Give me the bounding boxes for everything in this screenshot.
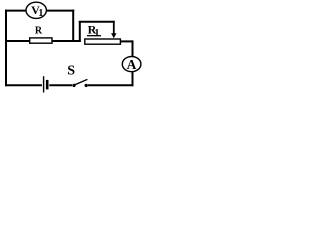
wire top-left horizontal (node to voltmeter) bbox=[5, 10, 26, 12]
rheostat R1 body bbox=[85, 39, 121, 44]
switch S left contact bbox=[72, 84, 75, 87]
voltmeter V1 bbox=[26, 2, 46, 19]
wire slider horizontal bbox=[79, 21, 115, 23]
wire rheostat right terminal bbox=[120, 40, 133, 42]
wire vertical B (to rheostat slider) bbox=[79, 21, 81, 42]
wire bottom right segment bbox=[88, 84, 134, 86]
wire voltmeter to right corner bbox=[46, 10, 74, 12]
wire bottom left segment bbox=[5, 84, 42, 86]
wire vertical down to ammeter bbox=[132, 40, 134, 57]
svg-text:A: A bbox=[127, 57, 137, 72]
rheostat slider arrow bbox=[111, 21, 116, 38]
wire vertical A (voltmeter branch right side) bbox=[72, 10, 74, 42]
svg-text:1: 1 bbox=[94, 28, 99, 39]
svg-text:1: 1 bbox=[38, 8, 43, 19]
svg-text:S: S bbox=[67, 64, 75, 79]
wire ammeter bottom to corner bbox=[132, 71, 134, 86]
svg-text:R: R bbox=[35, 26, 43, 37]
resistor R bbox=[30, 38, 52, 43]
wire resistor row right bbox=[52, 40, 81, 42]
label R1 bbox=[87, 23, 101, 39]
wire left vertical bbox=[5, 10, 7, 87]
wire resistor row left bbox=[5, 40, 31, 42]
switch S right contact bbox=[85, 84, 88, 87]
ammeter A bbox=[122, 57, 141, 73]
battery short plate bbox=[46, 80, 49, 90]
switch S lever bbox=[74, 79, 87, 85]
battery long plate bbox=[43, 76, 45, 92]
wire between battery and switch bbox=[49, 84, 72, 86]
